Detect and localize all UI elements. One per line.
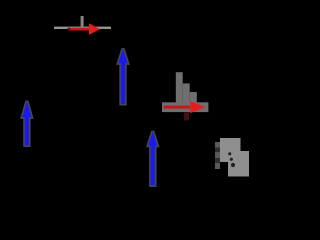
B0 axis dashed strip (dark gray with darker dashes) — [215, 142, 220, 169]
staircase glyph (tilted lattice icon), gray — [176, 72, 197, 102]
hopping arrow t1 (top, red) — [68, 23, 101, 35]
spin arrow 2 (middle) : dark halo — [118, 49, 127, 104]
lattice level line (top) — [54, 27, 111, 29]
spin arrow 3 (lower) : dark halo — [148, 131, 157, 185]
spin arrow 3 (lower) (blue) — [148, 131, 157, 185]
spin arrow 1 (left) (blue) — [22, 101, 31, 145]
spin arrow 2 (middle) (blue) — [118, 49, 127, 104]
site tick — [81, 16, 84, 27]
dim red reflection tick — [184, 113, 189, 121]
hopping arrow t2 (red) — [164, 101, 205, 113]
spin arrow 1 (left) : dark halo — [22, 101, 31, 145]
B0 letter counters (dark dots) — [228, 152, 235, 167]
rung band under hopping arrow 2 — [162, 102, 208, 112]
label B0 blob (rotated light gray squares) — [220, 138, 249, 177]
